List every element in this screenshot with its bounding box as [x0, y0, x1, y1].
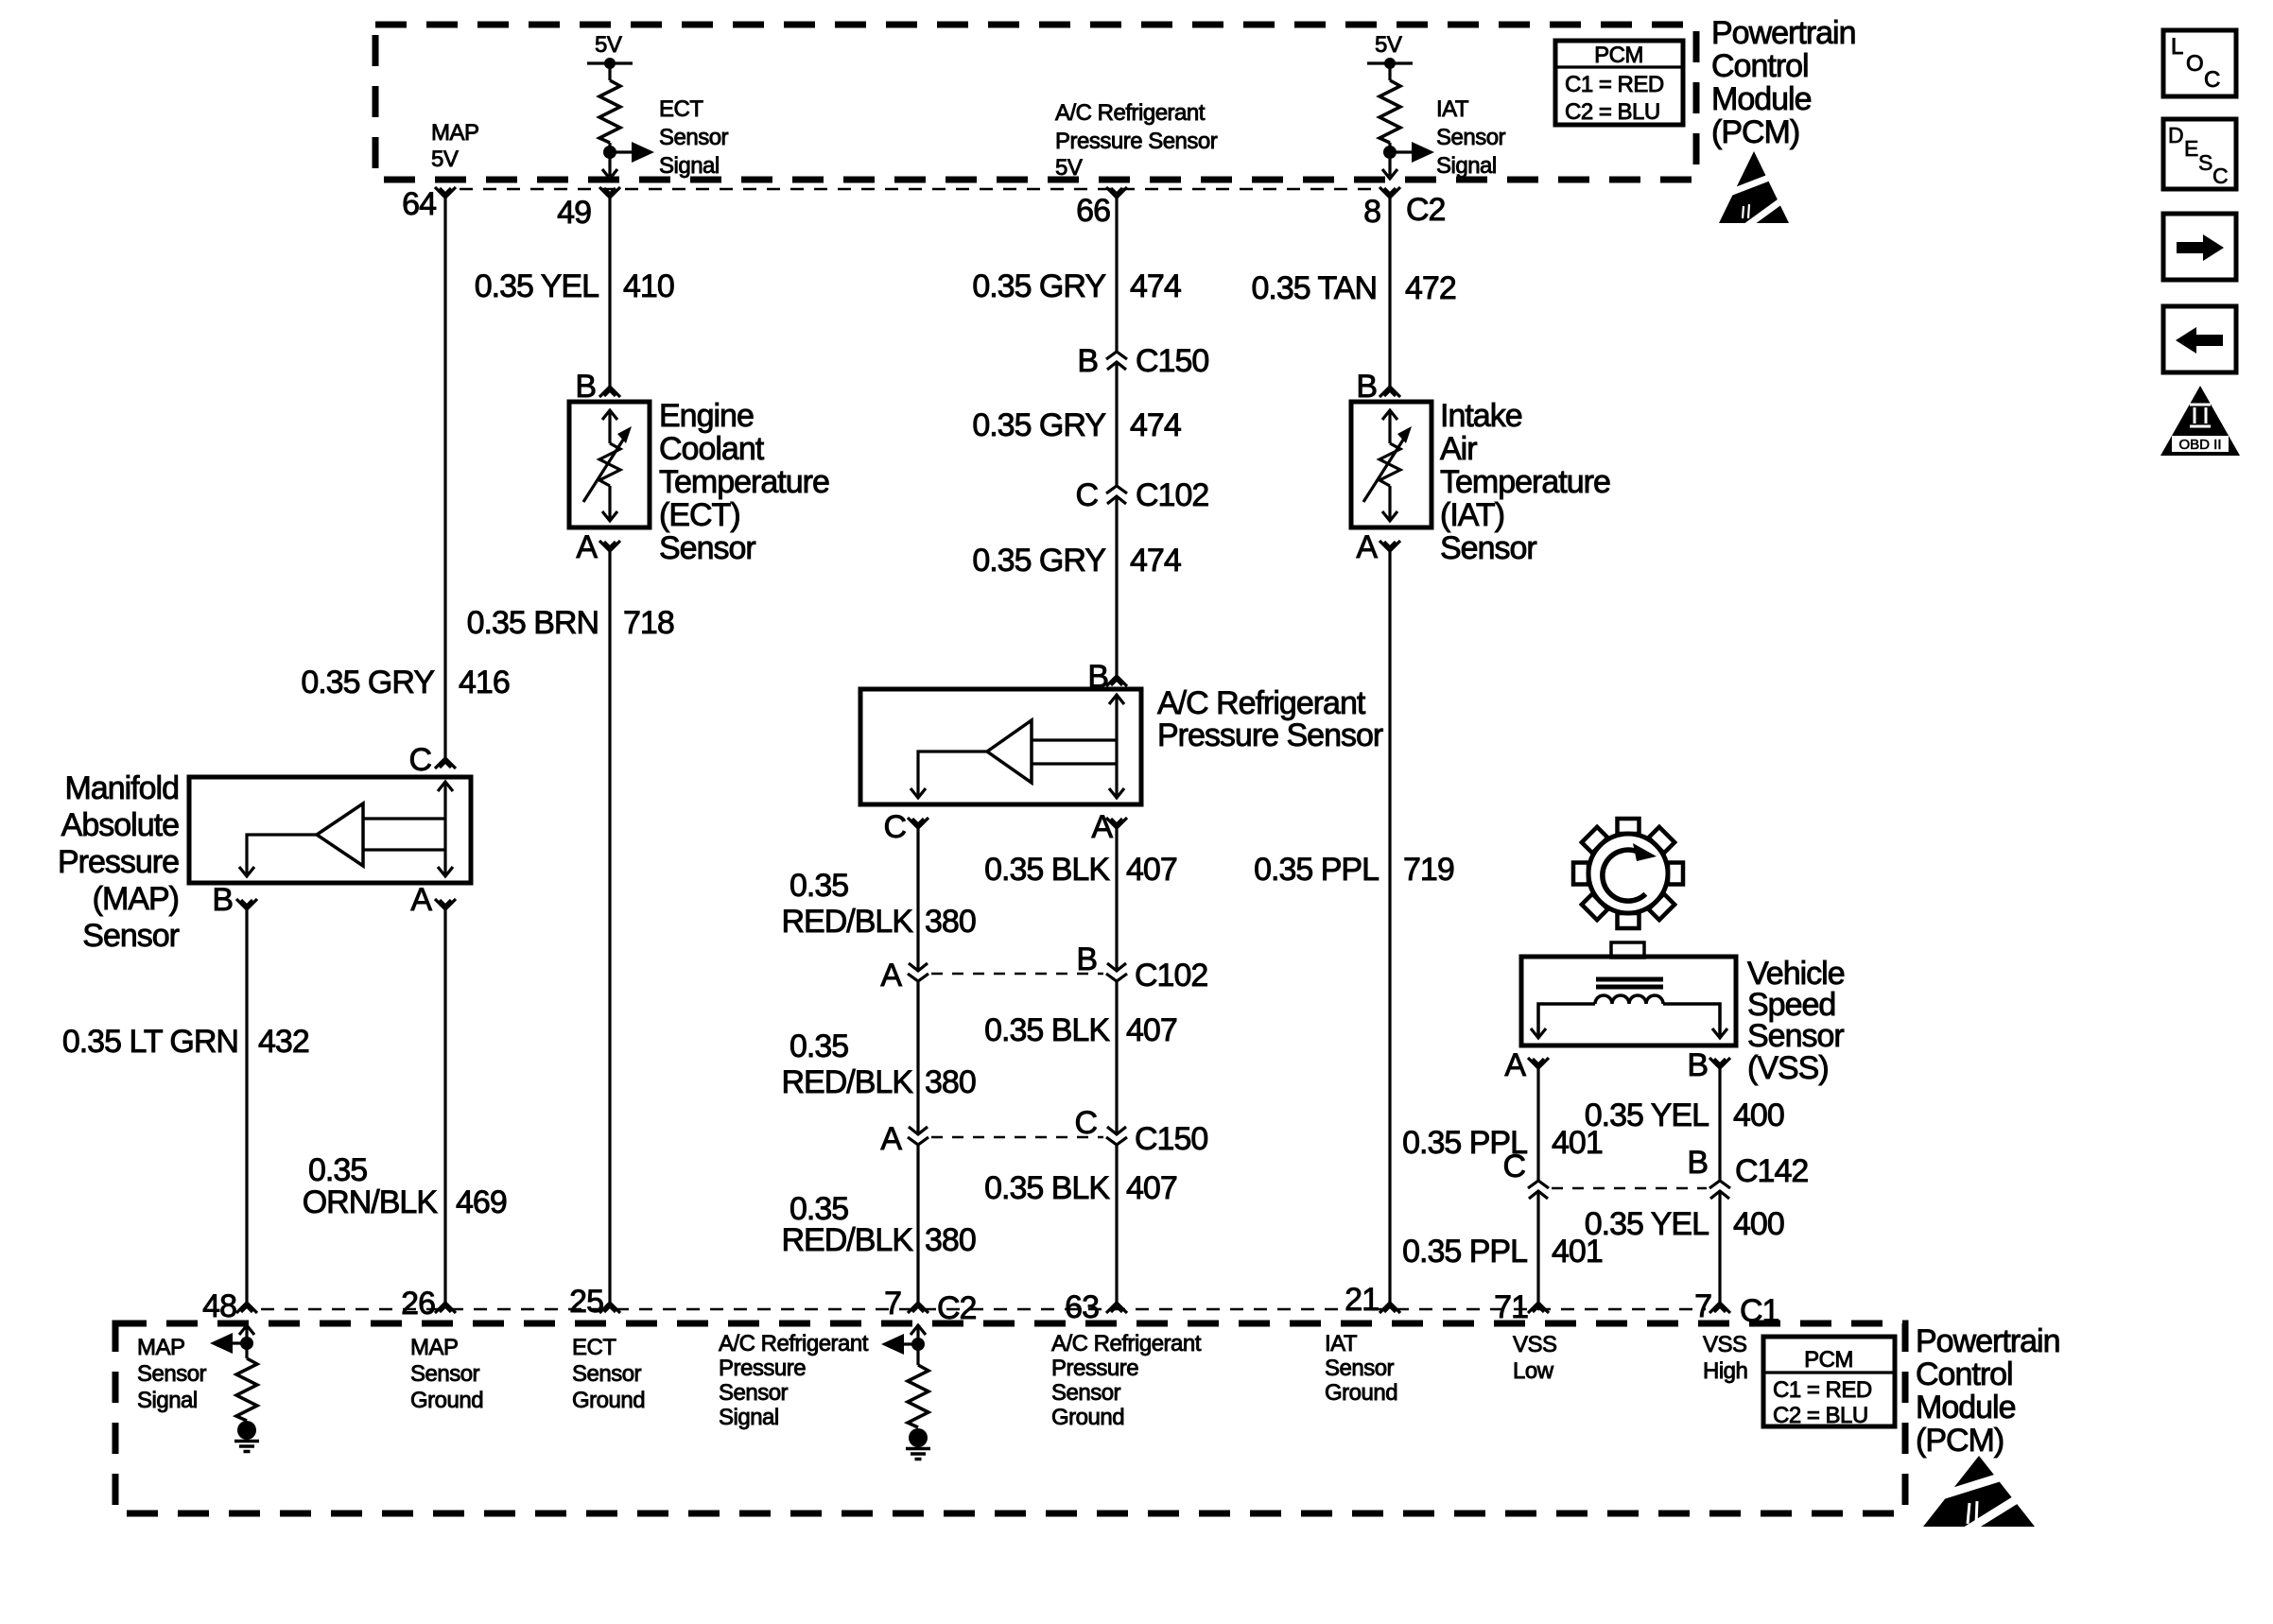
pin 63 (A/C pressure ground): [1106, 1303, 1127, 1313]
op-amp symbol: [317, 803, 363, 866]
svg-text:C: C: [1502, 1149, 1525, 1184]
svg-text:Pressure: Pressure: [719, 1356, 806, 1381]
wire 0.35 BRN 718 (ECT ground): [608, 551, 611, 1303]
svg-text:380: 380: [925, 1064, 976, 1100]
svg-text:474: 474: [1130, 543, 1181, 579]
svg-text:7: 7: [884, 1286, 901, 1322]
LOC icon: [2163, 30, 2236, 96]
wire 0.35 BLK 407 (A/C ground) seg1: [1115, 828, 1118, 971]
PCM connector legend (top): [1555, 41, 1683, 125]
pin 64 (PCM MAP 5V): [435, 187, 456, 198]
svg-text:C102: C102: [1135, 958, 1207, 993]
svg-text:5V: 5V: [431, 147, 459, 172]
svg-text:0.35 YEL: 0.35 YEL: [1585, 1206, 1709, 1242]
svg-text:64: 64: [402, 186, 436, 222]
svg-text:Control: Control: [1916, 1356, 2013, 1392]
svg-text:E: E: [2184, 136, 2198, 161]
svg-text:C: C: [2212, 164, 2229, 188]
svg-text:A: A: [1504, 1047, 1526, 1083]
svg-text:Signal: Signal: [659, 153, 720, 179]
node A (IAT ground pin): [1379, 541, 1400, 551]
svg-text:Signal: Signal: [1436, 153, 1497, 179]
svg-text:(VSS): (VSS): [1747, 1050, 1829, 1086]
svg-text:B: B: [1687, 1047, 1708, 1083]
pin 7 C2 (A/C pressure signal): [908, 1303, 928, 1313]
connector C102 pin B: [1106, 963, 1127, 981]
svg-text:O: O: [2186, 51, 2203, 77]
svg-text:A: A: [880, 1121, 902, 1157]
node A (A/C ground pin): [1106, 818, 1127, 828]
svg-text:Module: Module: [1711, 81, 1812, 117]
svg-text:Ground: Ground: [410, 1388, 483, 1413]
svg-text:A/C Refrigerant: A/C Refrigerant: [1157, 685, 1366, 721]
svg-text:B: B: [1687, 1145, 1708, 1181]
node B (VSS high pin): [1709, 1058, 1730, 1068]
OBD II triangle icon: [2160, 386, 2240, 456]
svg-text:Signal: Signal: [137, 1388, 198, 1413]
svg-text:Sensor: Sensor: [719, 1380, 789, 1406]
svg-text:ECT: ECT: [659, 96, 703, 122]
forward arrow icon: [2163, 214, 2236, 280]
svg-text:0.35: 0.35: [789, 868, 848, 904]
svg-text:Sensor: Sensor: [1325, 1356, 1395, 1381]
thermistor arrow: [583, 434, 627, 502]
svg-text:416: 416: [459, 665, 510, 700]
svg-text:ORN/BLK: ORN/BLK: [303, 1184, 439, 1220]
wire ECT sensor signal arrow: [610, 150, 632, 153]
svg-text:Temperature: Temperature: [659, 464, 829, 500]
svg-text:(IAT): (IAT): [1440, 497, 1504, 533]
svg-text:ECT: ECT: [572, 1335, 616, 1360]
svg-text:0.35 BLK: 0.35 BLK: [984, 1170, 1110, 1206]
wire 0.35 LT GRN 432 (MAP signal): [245, 909, 248, 1303]
svg-text:Ground: Ground: [572, 1388, 645, 1413]
resistor IAT pull-up: [1379, 80, 1400, 143]
svg-text:RED/BLK: RED/BLK: [782, 1222, 914, 1258]
connector C102 pin C (inline): [1106, 486, 1127, 504]
node A (ECT sensor ground pin): [599, 541, 620, 551]
svg-text:(ECT): (ECT): [659, 497, 740, 533]
svg-text:D: D: [2168, 123, 2184, 147]
svg-text:Powertrain: Powertrain: [1916, 1323, 2060, 1359]
wire 0.35 BLK 407 seg3: [1115, 1145, 1118, 1303]
svg-text:8: 8: [1363, 194, 1380, 230]
DESC icon: [2163, 119, 2236, 189]
node B (MAP signal pin): [236, 899, 257, 909]
svg-text:Absolute: Absolute: [61, 807, 179, 843]
svg-text:0.35 TAN: 0.35 TAN: [1252, 270, 1377, 306]
wire 0.35 GRY 474 (A/C pressure 5V): [1115, 198, 1118, 352]
connector C102 pin A: [908, 963, 928, 981]
node C (A/C signal pin): [908, 818, 928, 828]
svg-text:(PCM): (PCM): [1711, 114, 1799, 150]
Powertrain Control Module (PCM) top dashed box: [375, 25, 1696, 180]
VSS stub: [1611, 942, 1644, 958]
wire 0.35 RED/BLK 380 (A/C signal) seg1: [916, 828, 919, 971]
bottom connector thin dashed line: [261, 1308, 1706, 1310]
svg-text:Pressure Sensor: Pressure Sensor: [1157, 717, 1383, 753]
node B (A/C pressure sensor 5V pin): [1106, 676, 1127, 686]
svg-text:Coolant: Coolant: [659, 431, 765, 467]
back arrow icon: [2163, 306, 2236, 372]
svg-text:Sensor: Sensor: [572, 1361, 642, 1387]
svg-text:Sensor: Sensor: [82, 918, 179, 954]
node A (MAP ground pin): [435, 899, 456, 909]
svg-text:Low: Low: [1513, 1358, 1554, 1384]
resistor ECT pull-up: [599, 80, 620, 143]
svg-text:C: C: [408, 742, 431, 778]
svg-text:C: C: [1075, 477, 1098, 513]
svg-text:71: 71: [1494, 1289, 1528, 1325]
svg-text:C: C: [883, 809, 906, 845]
svg-text:7: 7: [1694, 1288, 1711, 1324]
svg-text:0.35: 0.35: [308, 1152, 367, 1188]
wire 0.35 GRY 416 (MAP 5V feed): [443, 198, 446, 758]
svg-text:380: 380: [925, 1222, 976, 1258]
svg-text:A: A: [1091, 809, 1113, 845]
svg-text:MAP: MAP: [410, 1335, 459, 1360]
wire 0.35 RED/BLK 380 seg3: [916, 1145, 919, 1303]
MAP sensor signal input symbol: [239, 1325, 254, 1335]
svg-text:0.35 BLK: 0.35 BLK: [984, 852, 1110, 888]
svg-text:5V: 5V: [1055, 155, 1083, 181]
svg-text:63: 63: [1065, 1289, 1099, 1325]
svg-text:Temperature: Temperature: [1440, 464, 1610, 500]
svg-text:IAT: IAT: [1325, 1331, 1358, 1356]
Powertrain Control Module (PCM) bottom dashed box: [115, 1323, 1905, 1513]
svg-text:C2 = BLU: C2 = BLU: [1773, 1403, 1868, 1428]
svg-text:Engine: Engine: [659, 398, 754, 434]
svg-text:0.35 BLK: 0.35 BLK: [984, 1012, 1110, 1048]
pin 49 (PCM ECT signal): [599, 187, 620, 198]
svg-text:Sensor: Sensor: [659, 125, 729, 150]
svg-text:Intake: Intake: [1440, 398, 1522, 434]
svg-text:Signal: Signal: [719, 1405, 779, 1430]
svg-text:A: A: [576, 529, 598, 565]
pin 21 (IAT sensor ground): [1379, 1303, 1400, 1313]
connector C150 pin B (inline): [1106, 352, 1127, 370]
node B (IAT sensor): [1379, 387, 1400, 397]
svg-text:474: 474: [1130, 268, 1181, 304]
svg-text:VSS: VSS: [1513, 1332, 1557, 1357]
pin 26 (MAP sensor ground): [435, 1303, 456, 1313]
svg-text:Pressure Sensor: Pressure Sensor: [1055, 129, 1218, 154]
svg-text:C102: C102: [1136, 477, 1208, 513]
pin 71 (VSS low): [1528, 1303, 1549, 1313]
svg-text:0.35 GRY: 0.35 GRY: [972, 407, 1105, 443]
svg-text:Ground: Ground: [1325, 1380, 1397, 1406]
pin 7 C1 (VSS high): [1709, 1303, 1730, 1313]
svg-text:26: 26: [401, 1286, 435, 1322]
svg-text:S: S: [2198, 150, 2212, 175]
svg-text:21: 21: [1345, 1282, 1379, 1318]
svg-text:Sensor: Sensor: [1436, 125, 1506, 150]
svg-text:5V: 5V: [1375, 32, 1402, 58]
svg-text:25: 25: [569, 1284, 603, 1320]
resistor (MAP signal input): [236, 1358, 257, 1421]
pin 48 (MAP sensor signal): [236, 1303, 257, 1313]
svg-text:C1 = RED: C1 = RED: [1773, 1377, 1872, 1403]
svg-text:RED/BLK: RED/BLK: [782, 1064, 914, 1100]
top connector thin dashed line: [460, 188, 1377, 190]
wire 0.35 PPL 401 seg2: [1536, 1191, 1539, 1303]
svg-text:472: 472: [1405, 270, 1456, 306]
svg-text:407: 407: [1126, 1170, 1177, 1206]
svg-text:C: C: [1074, 1105, 1097, 1141]
svg-text:VSS: VSS: [1703, 1332, 1747, 1357]
op-amp symbol: [987, 720, 1032, 783]
Manifold Absolute Pressure (MAP) Sensor: [189, 777, 471, 883]
svg-text:A/C Refrigerant: A/C Refrigerant: [1051, 1331, 1202, 1356]
VSS reluctor gear icon: [1573, 819, 1683, 928]
svg-text:PCM: PCM: [1594, 43, 1643, 68]
svg-text:(MAP): (MAP): [93, 881, 179, 917]
svg-text:Sensor: Sensor: [1051, 1380, 1121, 1406]
svg-text:Sensor: Sensor: [410, 1361, 480, 1387]
Engine Coolant Temperature (ECT) Sensor: [569, 402, 650, 527]
svg-text:719: 719: [1403, 852, 1454, 888]
svg-text:C1 = RED: C1 = RED: [1565, 72, 1664, 97]
connector C150 pin A: [908, 1127, 928, 1145]
svg-text:A: A: [410, 882, 432, 918]
svg-text:A: A: [1356, 529, 1378, 565]
svg-text:C2: C2: [1406, 192, 1446, 228]
svg-text:MAP: MAP: [431, 120, 479, 146]
svg-text:0.35 GRY: 0.35 GRY: [972, 268, 1105, 304]
ESD sensitive device symbol (bottom): [1923, 1456, 2035, 1533]
svg-text:0.35 GRY: 0.35 GRY: [301, 665, 434, 700]
svg-text:5V: 5V: [595, 32, 622, 58]
svg-text:B: B: [1076, 942, 1097, 977]
svg-text:407: 407: [1126, 1012, 1177, 1048]
svg-text:C2 = BLU: C2 = BLU: [1565, 99, 1660, 125]
pin 66 (PCM A/C pressure 5V): [1106, 187, 1127, 198]
svg-text:Module: Module: [1916, 1390, 2016, 1425]
wire 0.35 RED/BLK 380 seg2: [916, 981, 919, 1134]
svg-text:Sensor: Sensor: [1747, 1018, 1844, 1054]
wire 0.35 ORN/BLK 469 (MAP ground): [443, 909, 446, 1303]
C102 dashed link: [931, 973, 1103, 976]
svg-text:Ground: Ground: [1051, 1405, 1124, 1430]
resistor (A/C signal input): [908, 1365, 928, 1427]
svg-text:0.35 YEL: 0.35 YEL: [1585, 1097, 1709, 1133]
ground (A/C signal reference): [906, 1428, 930, 1460]
connector C150 pin C: [1106, 1127, 1127, 1145]
svg-text:Air: Air: [1440, 431, 1477, 467]
svg-text:0.35 LT GRN: 0.35 LT GRN: [62, 1024, 238, 1060]
wire 0.35 PPL 719 (IAT ground): [1388, 551, 1391, 1303]
svg-text:400: 400: [1733, 1097, 1784, 1133]
svg-text:0.35 GRY: 0.35 GRY: [972, 543, 1105, 579]
node A (VSS low pin): [1528, 1058, 1549, 1068]
PCM connector legend (bottom): [1763, 1337, 1895, 1426]
svg-text:Pressure: Pressure: [1051, 1356, 1138, 1381]
svg-text:407: 407: [1126, 852, 1177, 888]
ESD sensitive device symbol (top): [1719, 151, 1789, 227]
svg-text:C142: C142: [1735, 1153, 1808, 1189]
svg-text:0.35: 0.35: [789, 1028, 848, 1064]
svg-text:469: 469: [456, 1184, 507, 1220]
svg-text:L: L: [2171, 34, 2183, 60]
svg-text:MAP: MAP: [137, 1335, 185, 1360]
C142 dashed link: [1552, 1187, 1707, 1190]
svg-text:718: 718: [623, 605, 674, 641]
wire 0.35 PPL 401 (VSS low) seg1: [1536, 1068, 1539, 1181]
Intake Air Temperature (IAT) Sensor: [1351, 402, 1431, 527]
svg-text:Manifold: Manifold: [64, 770, 179, 806]
wire 0.35 YEL 400 seg2: [1718, 1191, 1721, 1303]
connector C142 pin C: [1528, 1181, 1549, 1199]
wire 0.35 BLK 407 seg2: [1115, 981, 1118, 1134]
svg-text:B: B: [212, 882, 233, 918]
A/C pressure signal input symbol: [911, 1325, 926, 1335]
svg-text:Pressure: Pressure: [58, 844, 179, 880]
svg-text:B: B: [575, 369, 596, 405]
svg-text:High: High: [1703, 1358, 1747, 1384]
node B (ECT sensor): [599, 387, 620, 397]
svg-text:RED/BLK: RED/BLK: [782, 904, 914, 940]
svg-text:Control: Control: [1711, 48, 1809, 84]
svg-text:A/C Refrigerant: A/C Refrigerant: [719, 1331, 869, 1356]
svg-text:C: C: [2204, 67, 2220, 93]
svg-text:0.35 YEL: 0.35 YEL: [475, 268, 599, 304]
svg-text:Sensor: Sensor: [137, 1361, 207, 1387]
svg-text:B: B: [1356, 369, 1377, 405]
svg-text:(PCM): (PCM): [1916, 1423, 2004, 1459]
svg-text:C150: C150: [1136, 343, 1208, 379]
svg-text:474: 474: [1130, 407, 1181, 443]
node C (MAP sensor 5V pin): [435, 758, 456, 769]
svg-text:400: 400: [1733, 1206, 1784, 1242]
pin 25 (ECT sensor ground): [599, 1303, 620, 1313]
wire 0.35 YEL 410 (ECT signal): [608, 198, 611, 387]
svg-text:A: A: [880, 958, 902, 993]
wire 0.35 TAN 472 (IAT signal): [1388, 198, 1391, 387]
svg-text:A/C Refrigerant: A/C Refrigerant: [1055, 100, 1206, 126]
connector C142 pin B: [1709, 1181, 1730, 1199]
wire 0.35 YEL 400 (VSS high) seg1: [1718, 1068, 1721, 1181]
svg-text:Sensor: Sensor: [659, 530, 755, 566]
svg-text:380: 380: [925, 904, 976, 940]
svg-text:PCM: PCM: [1804, 1347, 1853, 1373]
svg-text:0.35 PPL: 0.35 PPL: [1254, 852, 1379, 888]
inductor coil: [1595, 995, 1663, 1004]
svg-text:48: 48: [202, 1288, 236, 1324]
svg-text:0.35 PPL: 0.35 PPL: [1402, 1234, 1527, 1270]
svg-text:49: 49: [557, 195, 591, 231]
A/C Refrigerant Pressure Sensor: [860, 689, 1141, 804]
svg-text:B: B: [1077, 343, 1098, 379]
svg-text:IAT: IAT: [1436, 96, 1469, 122]
svg-text:Sensor: Sensor: [1440, 530, 1536, 566]
wire IAT sensor signal arrow: [1390, 150, 1412, 153]
C150 dashed link: [931, 1136, 1103, 1139]
svg-text:432: 432: [258, 1024, 309, 1060]
pin 8 C2 (PCM IAT signal): [1379, 187, 1400, 198]
svg-text:66: 66: [1076, 193, 1110, 229]
svg-text:OBD II: OBD II: [2178, 437, 2221, 453]
svg-text:C150: C150: [1135, 1121, 1207, 1157]
svg-text:Powertrain: Powertrain: [1711, 15, 1856, 51]
svg-text:0.35 BRN: 0.35 BRN: [467, 605, 599, 641]
Vehicle Speed Sensor (VSS) box: [1521, 957, 1736, 1045]
svg-text:410: 410: [623, 268, 674, 304]
ground (MAP signal reference): [234, 1421, 259, 1452]
